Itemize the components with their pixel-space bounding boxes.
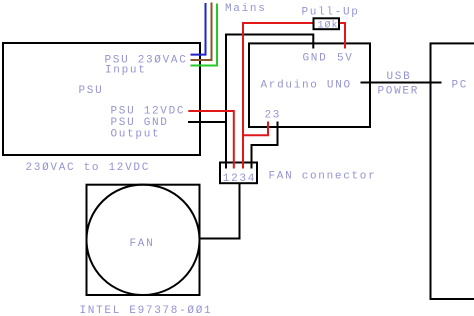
svg-text:Arduino UNO: Arduino UNO [261, 80, 352, 92]
wire connector to FAN [200, 183, 240, 239]
wire PSU 12VDC to connector pin 2 (red) [188, 111, 234, 169]
FAN connector box J1 [220, 163, 257, 184]
FAN blade circle [87, 185, 200, 295]
svg-text:Pull-Up: Pull-Up [302, 7, 360, 19]
wire pull-up net branch to Arduino pin 2 (red) [243, 122, 268, 136]
svg-text:Input: Input [105, 65, 147, 77]
svg-text:PSU: PSU [79, 85, 104, 97]
svg-text:PSU 12VDC: PSU 12VDC [111, 106, 186, 118]
Arduino UNO box U1 [249, 43, 370, 127]
wire pull-up resistor to connector pin 3 (red) [243, 23, 314, 169]
FAN box [87, 185, 200, 295]
svg-text:23ØVAC to 12VDC: 23ØVAC to 12VDC [26, 162, 151, 174]
wire resistor to Arduino 5V pin (red) [339, 23, 345, 49]
svg-text:PSU GND: PSU GND [111, 117, 169, 129]
wire mains neutral (brown) [191, 3, 212, 61]
svg-text:Mains: Mains [225, 3, 267, 15]
wire USB POWER Arduino to PC [361, 82, 442, 84]
wire PSU GND output to GND net junction [188, 121, 226, 123]
svg-text:GND: GND [303, 53, 328, 65]
svg-text:1234: 1234 [223, 173, 256, 185]
svg-text:INTEL E97378-ØØ1: INTEL E97378-ØØ1 [80, 305, 213, 316]
PC box [431, 43, 474, 299]
resistor R1 pull-up 10k body [314, 18, 340, 29]
svg-text:FAN: FAN [130, 238, 155, 250]
svg-text:1Øk: 1Øk [318, 20, 339, 32]
wire Arduino pin 3 to connector pin 4 [252, 122, 278, 169]
svg-text:5V: 5V [337, 53, 354, 65]
svg-text:USB: USB [387, 71, 412, 83]
wire mains live (blue) [191, 3, 206, 55]
wire GND net: Arduino GND pin to connector pin 1 [226, 35, 313, 169]
PSU box [3, 43, 200, 155]
svg-text:23: 23 [265, 110, 282, 122]
wire mains earth (green) [191, 4, 218, 66]
svg-text:POWER: POWER [378, 86, 420, 98]
svg-text:FAN connector: FAN connector [269, 171, 377, 183]
svg-text:Output: Output [111, 129, 161, 141]
svg-text:PC: PC [452, 80, 469, 92]
